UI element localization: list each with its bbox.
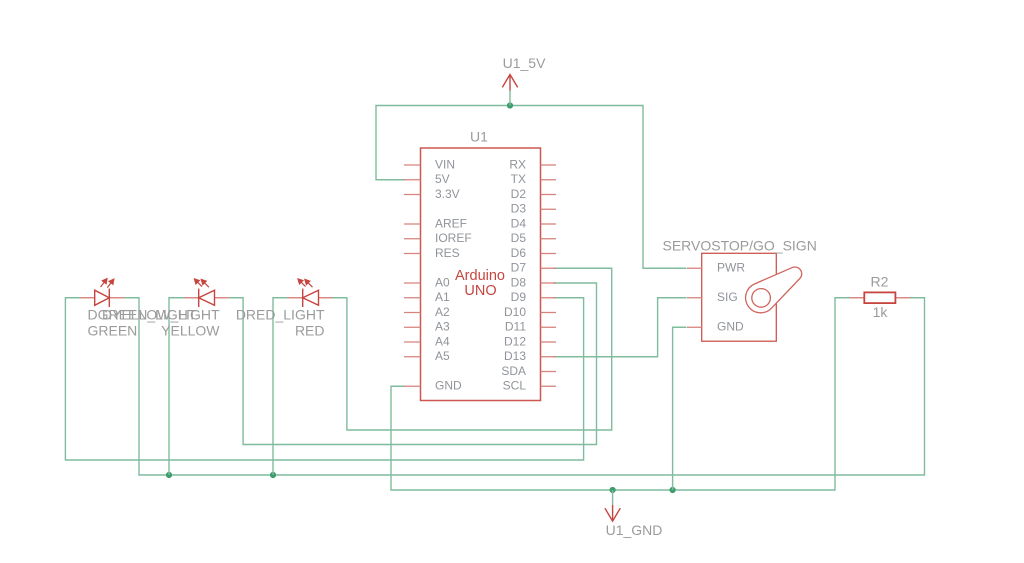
svg-text:DRED_LIGHT: DRED_LIGHT <box>236 307 325 323</box>
svg-text:RED: RED <box>295 323 325 339</box>
svg-text:D13: D13 <box>504 349 526 363</box>
servo SERVO box <box>702 253 777 341</box>
LED DYELLOW_LIGHT arrows <box>194 279 209 287</box>
LED DGREEN_LIGHT arrows <box>101 279 114 288</box>
svg-text:D5: D5 <box>511 231 527 245</box>
svg-text:D6: D6 <box>511 246 527 260</box>
svg-text:D3: D3 <box>511 202 527 216</box>
servo pin labels <box>717 261 745 334</box>
svg-text:SCL: SCL <box>503 379 527 393</box>
svg-text:A5: A5 <box>435 349 450 363</box>
servo pins <box>687 268 702 327</box>
svg-text:U1_5V: U1_5V <box>503 55 546 71</box>
servo horn hub circle <box>752 289 771 308</box>
op-amp U1 Arduino UNO box <box>421 148 541 401</box>
LED DGREEN_LIGHT symbol <box>80 297 124 299</box>
svg-text:SIG: SIG <box>717 290 738 304</box>
U1 left pins <box>404 165 421 386</box>
LED DRED_LIGHT arrows <box>298 279 313 287</box>
svg-text:1k: 1k <box>873 304 889 320</box>
svg-text:GND: GND <box>717 320 744 334</box>
svg-text:D10: D10 <box>504 305 526 319</box>
svg-text:D8: D8 <box>511 275 527 289</box>
svg-text:UNO: UNO <box>464 283 496 299</box>
wire U1_GND stub <box>612 490 614 506</box>
svg-text:Arduino: Arduino <box>455 268 505 284</box>
node junction dot LED2 leg <box>166 472 172 478</box>
svg-text:RES: RES <box>435 246 460 260</box>
wire U1_5V stub <box>509 90 511 106</box>
svg-text:AREF: AREF <box>435 216 467 230</box>
svg-text:SERVOSTOP/GO_SIGN: SERVOSTOP/GO_SIGN <box>663 238 817 254</box>
svg-text:A3: A3 <box>435 320 450 334</box>
wire net D8: LED2 cathode leg to U1 D8 <box>169 283 597 475</box>
wire net GREEN_LIGHT: LED1 cathode to series line <box>124 298 924 475</box>
svg-text:U1_GND: U1_GND <box>606 522 663 538</box>
svg-text:YELLOW: YELLOW <box>161 323 220 339</box>
U1 right pins <box>541 165 557 386</box>
wire net D7: LED3 legs to U1 D7 <box>273 268 612 475</box>
wire net 5V: U1 5V pin to servo PWR <box>376 106 687 269</box>
node 5V junction dot <box>507 102 513 108</box>
svg-text:VIN: VIN <box>435 157 455 171</box>
node junction dot servo GND <box>670 487 676 493</box>
svg-text:GREEN: GREEN <box>88 323 138 339</box>
wire net GND: U1 GND pin, bottom rail, R2 left <box>391 298 850 490</box>
svg-text:SDA: SDA <box>501 364 526 378</box>
svg-text:IOREF: IOREF <box>435 231 472 245</box>
svg-text:D2: D2 <box>511 187 527 201</box>
svg-text:5V: 5V <box>435 172 450 186</box>
svg-text:A1: A1 <box>435 290 450 304</box>
LED DYELLOW_LIGHT symbol <box>184 297 228 299</box>
svg-text:D9: D9 <box>511 290 527 304</box>
svg-text:A4: A4 <box>435 334 450 348</box>
svg-text:GND: GND <box>435 379 462 393</box>
LED DRED_LIGHT symbol <box>288 297 333 299</box>
U1 right pin labels <box>501 157 526 392</box>
svg-text:D4: D4 <box>511 216 527 230</box>
svg-text:PWR: PWR <box>717 261 745 275</box>
svg-text:A2: A2 <box>435 305 450 319</box>
svg-text:R2: R2 <box>871 274 889 290</box>
svg-text:3.3V: 3.3V <box>435 187 460 201</box>
U1 left pin labels <box>435 157 472 392</box>
wire net D13/SIG: U1 D13 to servo SIG <box>553 298 687 357</box>
svg-text:RX: RX <box>509 157 526 171</box>
wire net D9: U1 D9 pin to LED1 anode <box>65 298 583 460</box>
svg-text:U1: U1 <box>470 129 488 145</box>
resistor R2 <box>850 297 910 299</box>
power symbol U1_5V arrow <box>502 75 517 91</box>
node junction dot LED3 leg <box>270 472 276 478</box>
svg-text:D12: D12 <box>504 334 526 348</box>
svg-text:DYELLOW_LIGHT: DYELLOW_LIGHT <box>102 307 220 323</box>
svg-text:A0: A0 <box>435 275 450 289</box>
power symbol U1_GND arrow <box>605 505 620 521</box>
wire net servo GND leg <box>673 327 687 490</box>
svg-text:TX: TX <box>511 172 526 186</box>
svg-text:D7: D7 <box>511 261 527 275</box>
servo horn <box>746 267 802 313</box>
node junction dot U1_GND <box>610 487 616 493</box>
svg-text:D11: D11 <box>505 320 526 334</box>
